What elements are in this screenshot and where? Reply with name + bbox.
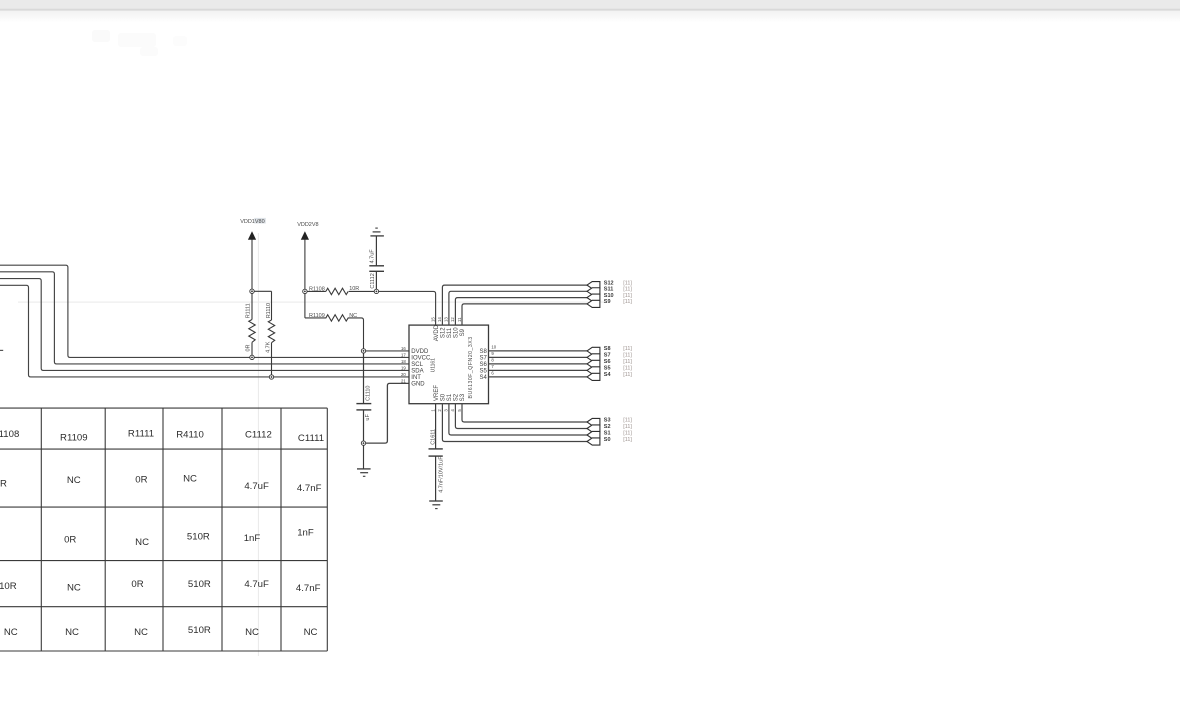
partial symbol at left edge: [0, 349, 3, 351]
wire S10 top: [455, 298, 587, 326]
wire S12 top: [442, 285, 587, 325]
svg-text:14: 14: [437, 317, 442, 322]
svg-text:U1161: U1161: [431, 358, 437, 373]
svg-text:4.7K: 4.7K: [266, 341, 272, 353]
svg-text:S7: S7: [604, 353, 611, 359]
net flag S6: [587, 359, 632, 367]
svg-text:S1: S1: [604, 430, 611, 436]
top toolbar gray band: [0, 0, 1180, 9]
svg-text:R1111: R1111: [246, 303, 252, 318]
IC U1161 BU6130F_QFN20_3X3: [409, 325, 489, 404]
chip top pin names (rotated): [434, 324, 466, 341]
svg-text:VDD1V80: VDD1V80: [240, 219, 264, 225]
svg-text:10: 10: [491, 344, 496, 349]
svg-text:[11]: [11]: [623, 299, 632, 305]
svg-text:S5: S5: [604, 366, 611, 372]
svg-text:R1111: R1111: [128, 428, 154, 439]
bottom pin numbers 1-5 (rotated): [430, 409, 461, 412]
svg-text:0R: 0R: [135, 475, 147, 486]
resistor R1109 NC (horizontal): [305, 315, 364, 351]
faint crosshair vertical line: [257, 233, 259, 656]
svg-text:[11]: [11]: [623, 359, 632, 365]
wire S2 bottom: [455, 404, 587, 429]
svg-text:[11]: [11]: [623, 287, 632, 293]
wire S1 bottom: [449, 404, 587, 435]
svg-text:4.7nF: 4.7nF: [296, 583, 321, 594]
svg-text:4.7uF: 4.7uF: [370, 249, 376, 264]
net flag S2: [587, 424, 632, 432]
junction GND net at C1110: [361, 441, 365, 445]
svg-text:DVDD: DVDD: [411, 349, 429, 355]
ground under C1111: [429, 501, 443, 509]
net flag S0: [587, 437, 632, 445]
svg-text:510R: 510R: [188, 579, 211, 590]
svg-text:S1: S1: [447, 393, 453, 401]
junction R1110 on INT wire: [269, 375, 273, 379]
svg-text:GND: GND: [411, 381, 425, 387]
net flag S7: [587, 353, 632, 361]
svg-text:NC: NC: [304, 627, 318, 638]
svg-text:R1108: R1108: [309, 287, 325, 293]
svg-text:10R: 10R: [349, 286, 359, 292]
net flag S12: [587, 280, 632, 288]
wire bus left: SDA run: [0, 279, 409, 371]
svg-text:R4110: R4110: [176, 429, 204, 440]
resistor R1111 0R (vertical): [249, 291, 255, 357]
svg-text:16: 16: [401, 346, 406, 351]
svg-text:0R: 0R: [0, 479, 7, 490]
svg-text:[11]: [11]: [623, 346, 632, 352]
junction R1111 on IOVCC wire: [250, 355, 254, 359]
svg-text:[11]: [11]: [623, 366, 632, 372]
wire bus left: INT run: [0, 285, 409, 377]
svg-text:SCL: SCL: [411, 362, 423, 368]
capacitor C1112 4.7uF: [369, 228, 384, 291]
chip left pin names: [411, 349, 431, 388]
faint crosshair horizontal line: [18, 301, 604, 303]
svg-text:12: 12: [450, 317, 455, 322]
svg-text:C1111: C1111: [298, 433, 324, 444]
svg-text:C1611: C1611: [430, 429, 436, 445]
svg-text:S11: S11: [447, 327, 453, 338]
wire S4 right: [489, 376, 588, 378]
svg-text:S12: S12: [441, 327, 447, 338]
power flag VDD1V80: [240, 218, 266, 291]
svg-text:4.7uF: 4.7uF: [244, 481, 269, 492]
svg-text:C1112: C1112: [370, 273, 376, 288]
net flag S5: [587, 366, 632, 374]
chip right pin names: [479, 349, 487, 381]
net flag S10: [587, 293, 632, 301]
net flag S11: [587, 287, 632, 295]
svg-text:[11]: [11]: [623, 293, 632, 299]
svg-text:4.7nF: 4.7nF: [297, 483, 322, 494]
svg-text:SDA: SDA: [411, 368, 423, 374]
svg-text:BU6130F_QFN20_3X3: BU6130F_QFN20_3X3: [468, 336, 474, 398]
wire AVDD net from junction to chip: [376, 291, 435, 325]
capacitor C1111 on VREF: [429, 404, 443, 501]
svg-text:S10: S10: [604, 293, 614, 299]
svg-text:S3: S3: [460, 393, 466, 401]
wire S5 right: [489, 369, 588, 371]
svg-text:[11]: [11]: [623, 280, 632, 286]
left pin numbers 16-21: [401, 346, 406, 384]
wire S7 right: [489, 356, 588, 358]
wire S3 bottom: [462, 404, 587, 422]
svg-text:4.7uF: 4.7uF: [244, 579, 269, 590]
net flag S3: [587, 417, 632, 425]
svg-text:[11]: [11]: [623, 417, 632, 423]
svg-text:S9: S9: [460, 328, 466, 336]
svg-text:[11]: [11]: [623, 430, 632, 436]
svg-text:S6: S6: [604, 359, 611, 365]
junction at VDD2V8 / R1108: [303, 289, 307, 293]
wire S11 top: [449, 291, 587, 325]
svg-text:NC: NC: [349, 313, 357, 319]
svg-text:[11]: [11]: [623, 424, 632, 430]
svg-text:NC: NC: [135, 537, 149, 548]
wire bus left: IOVCC run: [0, 265, 409, 357]
svg-text:S5: S5: [479, 368, 487, 374]
svg-text:S0: S0: [604, 437, 611, 443]
svg-text:18: 18: [401, 359, 406, 364]
svg-text:510R: 510R: [0, 581, 17, 592]
svg-text:510R: 510R: [187, 532, 210, 543]
resistor R1110 4.7K (vertical): [252, 291, 275, 377]
svg-text:S7: S7: [479, 355, 487, 361]
svg-text:R1109: R1109: [60, 432, 88, 443]
svg-text:S2: S2: [454, 393, 460, 401]
svg-text:4.7nF/10V/1uF: 4.7nF/10V/1uF: [438, 456, 444, 493]
junction at VDD1V80 / R1111 / R1110: [250, 289, 254, 293]
resistor R1108 10R (horizontal): [305, 288, 377, 294]
svg-text:S6: S6: [479, 362, 487, 368]
svg-text:NC: NC: [245, 627, 259, 638]
svg-text:AVDD: AVDD: [434, 324, 440, 341]
wire S8 right: [489, 350, 588, 352]
chip bottom pin names (rotated): [434, 385, 466, 402]
net flag S4: [587, 372, 632, 380]
svg-text:510R: 510R: [188, 625, 211, 636]
svg-text:NC: NC: [4, 627, 18, 638]
svg-text:S9: S9: [604, 299, 611, 305]
svg-text:0R: 0R: [64, 535, 76, 546]
svg-text:[11]: [11]: [623, 437, 632, 443]
svg-text:S8: S8: [604, 346, 611, 352]
junction DVDD branch: [361, 349, 365, 353]
svg-text:0R: 0R: [131, 579, 143, 590]
svg-text:[11]: [11]: [623, 372, 632, 378]
power flag VDD2V8: [297, 222, 318, 318]
svg-text:VREF: VREF: [434, 385, 440, 401]
svg-text:IOVCC: IOVCC: [411, 355, 431, 361]
net flag S1: [587, 430, 632, 438]
faint ghost smudges: [92, 30, 110, 42]
net flag S8: [587, 346, 632, 354]
svg-text:S8: S8: [479, 349, 487, 355]
wire bus left: SCL run: [0, 272, 409, 364]
svg-text:S3: S3: [604, 417, 611, 423]
junction at C1112 / AVDD net: [374, 289, 378, 293]
wire DVDD branch: [364, 350, 410, 352]
svg-text:S10: S10: [454, 327, 460, 338]
wire S0 bottom: [442, 404, 587, 442]
svg-text:S12: S12: [604, 280, 614, 286]
svg-text:uF: uF: [365, 414, 371, 421]
svg-text:S4: S4: [479, 375, 487, 381]
top pin numbers 15-11 (rotated): [430, 317, 461, 322]
svg-text:S2: S2: [604, 424, 611, 430]
ground under C1110: [357, 443, 371, 476]
options table: [0, 408, 327, 651]
wire S6 right: [489, 363, 588, 365]
svg-text:INT: INT: [411, 375, 421, 381]
right pin numbers 10-6: [491, 344, 496, 375]
svg-text:11: 11: [457, 317, 462, 322]
wire S9 top: [462, 304, 587, 325]
svg-text:19: 19: [401, 365, 406, 370]
svg-text:NC: NC: [67, 475, 81, 486]
svg-text:15: 15: [430, 317, 435, 322]
svg-text:VDD2V8: VDD2V8: [297, 222, 318, 228]
svg-text:R1108: R1108: [0, 429, 19, 440]
svg-text:20: 20: [401, 372, 406, 377]
svg-text:R1110: R1110: [266, 303, 272, 318]
svg-text:NC: NC: [65, 627, 79, 638]
svg-text:[11]: [11]: [623, 353, 632, 359]
svg-text:NC: NC: [183, 473, 197, 484]
svg-text:1nF: 1nF: [297, 527, 314, 538]
net flag S9: [587, 299, 632, 307]
svg-text:S0: S0: [441, 393, 447, 401]
svg-text:NC: NC: [134, 627, 148, 638]
svg-text:C1110: C1110: [365, 385, 371, 400]
svg-text:21: 21: [401, 378, 406, 383]
capacitor C1110 uF: [356, 351, 371, 443]
svg-text:C1112: C1112: [245, 429, 272, 440]
svg-text:1nF: 1nF: [244, 533, 261, 544]
wire GND pin to ground junction: [364, 383, 410, 443]
svg-text:13: 13: [444, 317, 449, 322]
svg-text:S4: S4: [604, 372, 612, 378]
svg-text:NC: NC: [67, 583, 81, 594]
svg-text:17: 17: [401, 352, 406, 357]
svg-text:0R: 0R: [245, 344, 251, 351]
svg-text:S11: S11: [604, 287, 613, 293]
svg-text:R1109: R1109: [309, 313, 325, 319]
